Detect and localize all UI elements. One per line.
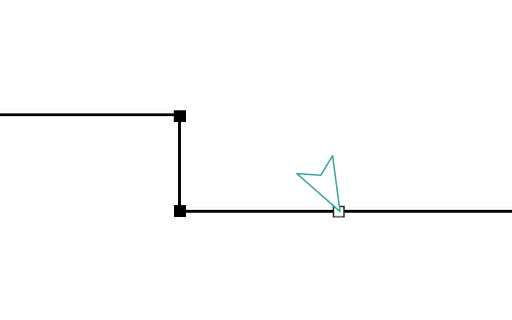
wire W3: bottom horizontal segment bbox=[180, 210, 512, 213]
node: lower wire corner junction handle bbox=[174, 205, 186, 217]
node: selected wire endpoint handle (white square) bbox=[334, 207, 345, 217]
wire W1: left horizontal segment bbox=[0, 113, 180, 116]
wire W2: vertical segment bbox=[178, 114, 181, 211]
cursor: teal wire-drawing pointer bbox=[297, 156, 340, 212]
node: upper wire corner junction handle bbox=[174, 110, 186, 122]
